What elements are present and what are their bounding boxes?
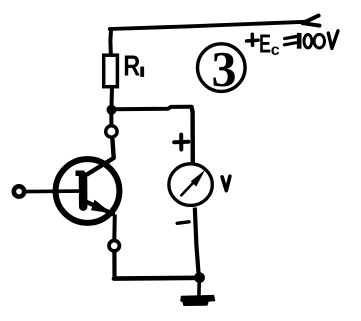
label 100V letter V bbox=[328, 31, 338, 49]
svg-text:R: R bbox=[123, 51, 140, 83]
svg-text:3: 3 bbox=[212, 41, 237, 97]
label 100V digit 0 bbox=[304, 35, 312, 48]
label R1 subscript 1 bbox=[140, 67, 144, 77]
wire bottom rail bbox=[114, 275, 200, 280]
voltmeter needle arrowhead bbox=[191, 170, 205, 187]
wire from rail down to R1 bbox=[108, 28, 113, 55]
resistor R1 bbox=[104, 55, 118, 86]
svg-text:E: E bbox=[259, 28, 271, 58]
junction dot collector node bbox=[107, 105, 117, 115]
wire junction down to collector test point bbox=[109, 110, 113, 125]
wire emitter down to test point bbox=[112, 215, 117, 241]
emitter test point open node bbox=[109, 241, 119, 251]
label +Ec plus sign bbox=[247, 34, 259, 45]
voltmeter label V bbox=[222, 176, 230, 190]
wire voltmeter bottom lead bbox=[195, 208, 199, 275]
wire junction to voltmeter branch bbox=[112, 107, 191, 110]
voltmeter needle bbox=[181, 183, 193, 195]
transistor Q1 emitter arrow bbox=[91, 200, 112, 214]
transistor Q1 base bar bbox=[79, 176, 88, 207]
wire top supply rail bbox=[110, 22, 305, 29]
voltmeter plus label bbox=[174, 135, 188, 150]
collector test point open node bbox=[106, 126, 117, 137]
wire emitter node down to bottom rail bbox=[112, 252, 116, 277]
transistor Q1 body circle bbox=[56, 159, 120, 223]
junction dot ground node bbox=[194, 272, 205, 283]
base terminal open ring bbox=[14, 186, 24, 196]
node annotation circle 3 bbox=[198, 44, 246, 92]
svg-text:c: c bbox=[271, 42, 280, 59]
ground symbol bar bbox=[181, 296, 215, 306]
label equals sign bbox=[284, 37, 296, 45]
terminal arrow +Ec end bbox=[303, 16, 320, 26]
transistor Q1 base bar top cap bbox=[76, 171, 85, 177]
wire R1 bottom to junction bbox=[109, 87, 114, 110]
wire collector lead bbox=[87, 139, 114, 175]
wire base lead bbox=[26, 189, 80, 193]
voltmeter minus label bbox=[177, 222, 189, 224]
voltmeter V1 body circle bbox=[169, 164, 212, 206]
label 100V digit 0 bbox=[314, 34, 324, 48]
wire ground stub bbox=[197, 278, 201, 296]
wire voltmeter branch corner down bbox=[192, 107, 193, 163]
label 100V digit 1 bbox=[297, 33, 302, 49]
transistor Q1 emitter lead bbox=[85, 201, 113, 214]
